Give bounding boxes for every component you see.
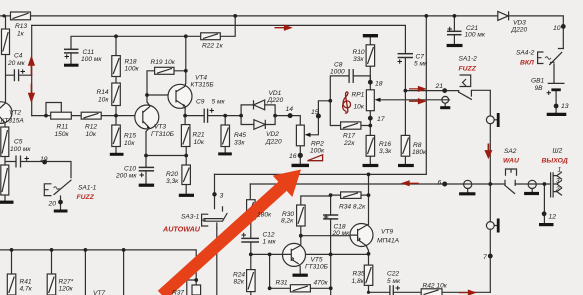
svg-text:C8: C8 [334,62,343,69]
svg-text:1,8к: 1,8к [352,278,365,285]
ground lower-left [0,201,14,204]
svg-text:7: 7 [483,254,487,261]
svg-text:C5: C5 [14,139,23,146]
svg-text:470к: 470к [314,280,329,287]
ground under VT5 [293,274,308,277]
svg-text:82к: 82к [234,279,245,286]
switch SA2 bracket [506,169,517,176]
svg-text:C4: C4 [14,53,23,60]
red arrow left on bus2 [403,181,419,185]
wire node21 row y=90.6 [405,90,458,92]
resistor R17 [341,122,361,129]
svg-text:C7: C7 [416,54,425,61]
red treble clef beside RP1 [343,92,351,113]
tilde SA1-1 [54,187,60,190]
svg-text:100к: 100к [125,66,140,73]
svg-text:R41: R41 [20,279,32,286]
potentiometer RP2 [296,125,304,146]
switch SA4-2 bracket [538,52,544,64]
svg-text:3,3к: 3,3к [166,178,179,185]
capacitor C18 [323,215,338,219]
wire C18 stems [330,195,332,254]
svg-text:SA1-1: SA1-1 [78,185,97,192]
svg-text:13: 13 [561,103,569,110]
wire VT2 emitter chain and C5 tee [5,123,71,200]
svg-text:RP1: RP1 [352,92,365,99]
svg-text:Д220: Д220 [511,27,528,34]
node 16 dot [298,153,303,158]
plus sign C12 [242,233,247,237]
svg-text:R8: R8 [413,142,422,149]
wire R17 row [330,101,370,126]
potentiometer RP1 [366,90,374,111]
wire C7/R8 column x=405.4 [404,58,406,164]
svg-text:21: 21 [435,83,444,90]
red arrow right on rail2 [275,25,291,30]
plus sign C22 [396,286,401,290]
svg-text:100 мк: 100 мк [81,56,102,63]
wire RP2 bottom to node16 and ground [299,146,301,164]
jack plug symbol lower (circle and bar) [486,219,498,233]
svg-text:R16: R16 [379,141,391,148]
svg-text:8,2к: 8,2к [281,218,294,225]
node 12 dot [542,211,547,216]
svg-text:20 мк: 20 мк [332,230,351,237]
capacitor C22 [390,285,393,295]
svg-text:R15: R15 [124,133,136,140]
wire top supply rail (node 10 net) [0,16,563,49]
wire VT5 base row y=254.4 [251,253,369,255]
resistor R20 [182,165,191,185]
wire R18-R14-R15 column x=116 [115,36,117,152]
transistor VT2 (clipped at left edge) [0,102,12,124]
svg-text:SA2: SA2 [504,148,517,155]
plus sign C5 [25,156,30,160]
svg-text:5 мк: 5 мк [414,61,428,68]
plus sign C21 [448,27,453,31]
resistor R35 [364,265,373,285]
jack socket A on bus2 [464,180,472,188]
tilde SA4-2 [545,57,551,60]
diode VD3 [498,11,509,20]
ground under node 12 [539,223,554,226]
svg-text:200 мк: 200 мк [115,173,137,180]
wire VT7 risers [85,250,123,295]
node 10 dot [561,24,566,29]
svg-text:3: 3 [220,193,224,200]
svg-text:18: 18 [375,81,383,88]
svg-text:R24: R24 [233,272,245,279]
resistor R34 [341,192,361,199]
wire bottom row y=292.3 with C22 and R42 [369,291,491,293]
svg-text:3: 3 [556,177,560,184]
resistor R10 [366,45,375,66]
svg-text:VT2: VT2 [9,110,21,117]
svg-text:VD1: VD1 [269,90,282,97]
svg-text:VT3: VT3 [154,124,166,131]
wire R19 row and VT3 collector column [147,71,186,102]
node 15 dot [316,114,321,119]
svg-text:19: 19 [40,156,48,163]
wire R45 ground stem [224,147,226,153]
capacitor C10 [139,167,154,170]
svg-text:1000: 1000 [330,69,345,76]
svg-text:VT7: VT7 [93,290,105,295]
ground under C10 [139,184,154,187]
svg-text:20: 20 [48,201,57,208]
svg-text:6: 6 [438,180,442,187]
svg-text:10к: 10к [98,97,109,104]
resistor R14 [112,83,121,106]
red arrow up on C4 column [29,58,34,77]
wire bus2 drop to 180k resistor and C12 [249,184,252,254]
resistor R30 [297,205,306,226]
wire main signal row y=115.6 left part [32,115,135,117]
ground under fuzz jack [440,106,450,109]
wire VT4 collector column x=185.8 [185,36,187,83]
svg-text:180к: 180к [412,149,427,156]
plus sign C10 [140,173,145,177]
svg-text:R21: R21 [193,132,205,139]
svg-text:5 мк: 5 мк [212,99,226,106]
svg-text:Д220: Д220 [265,139,282,146]
red arrow right on RP1 wiper wire [409,99,425,103]
switch SA1-2 contacts and blade [459,90,491,99]
wire R37 parallel branch [187,280,196,295]
node 17 dot [368,116,373,121]
svg-text:RP2: RP2 [311,141,324,148]
svg-text:R10: R10 [353,49,365,56]
ground under R15 [110,153,124,156]
svg-text:10к: 10к [194,139,205,146]
wire VT9 collector column x=368.5 [368,174,370,224]
wire R45 tap and R21 tap [185,116,225,125]
resistor R8 [401,135,410,156]
wire R41 and R27 stems [12,250,52,274]
svg-text:R35: R35 [353,271,365,278]
capacitor C21 [447,31,462,34]
svg-text:C9: C9 [196,99,205,106]
svg-text:КТ315А: КТ315А [1,118,25,125]
resistor R21 [181,125,190,147]
node 20 dot [58,200,63,205]
svg-text:R17: R17 [343,133,355,140]
ground under node 20 [54,210,68,213]
RP1 wiper arrowhead [375,98,381,102]
svg-text:16: 16 [289,153,297,160]
diode VD1 (points left) [254,100,265,110]
svg-text:22к: 22к [343,140,355,147]
wire R30 bottom to VT5 collector and VT9 base [301,226,350,245]
svg-text:20 мк: 20 мк [7,60,26,67]
svg-text:10: 10 [553,25,561,32]
svg-text:12: 12 [549,214,557,221]
wire VT5 emitter to ground [299,264,301,273]
svg-text:R18: R18 [125,59,137,66]
wire jack ground stems [445,103,532,192]
svg-text:VD2: VD2 [266,131,279,138]
ground under jack B [524,192,539,195]
resistor R37 [192,285,201,295]
wire diode loop frame [241,105,275,125]
red arrow down on C4 column [29,84,34,102]
svg-text:10к: 10к [124,140,135,147]
wire VT9 emitter node / R35 [368,251,370,293]
svg-text:10к: 10к [86,131,97,138]
resistor below VT2 (unlabeled, edge) [1,127,9,157]
resistor R42 [421,289,442,295]
resistor R45 [221,125,230,147]
resistor R24 [247,270,256,292]
switch SA1-2 bracket [460,75,471,87]
svg-text:R11: R11 [57,124,69,131]
ground under node 16 [292,164,310,167]
svg-text:VT9: VT9 [381,229,393,236]
diode VD2 (points right) [254,120,265,130]
plus sign C4 [21,69,26,73]
wire C9 to diode loop to RP2 [208,116,301,126]
ground under jack A [459,192,475,195]
svg-text:R37: R37 [172,290,184,295]
svg-text:4,7к: 4,7к [20,286,33,293]
wire C21 stems [453,16,455,44]
svg-text:1к: 1к [17,31,25,38]
svg-text:14: 14 [286,106,294,113]
svg-text:C11: C11 [83,49,95,56]
capacitor C4 [14,69,18,81]
node 21 dot [442,88,447,93]
wire R10/RP1/R16 column x=370.3 [369,37,371,164]
svg-text:R12: R12 [85,124,97,131]
resistor R31 [290,285,310,292]
ground under R8 [398,164,414,167]
svg-text:AUTOWAU: AUTOWAU [162,225,201,234]
svg-text:FUZZ: FUZZ [77,194,95,201]
big red arrow pointing at RP2/node16 [158,170,301,295]
svg-text:Д220: Д220 [267,97,284,104]
switch SA1-1 bracket [44,184,51,196]
switch SA4-2 blade and leads [550,49,564,84]
red arrow right on node21 wire [409,87,425,91]
plus sign C9 [210,108,215,112]
capacitor C12 [241,238,259,242]
svg-text:33к: 33к [353,56,364,63]
transistor VT9 [350,224,373,251]
resistor R19 [155,67,174,74]
svg-text:C10: C10 [124,166,136,173]
plus sign C11 [65,54,70,58]
resistor R12 [81,112,101,119]
svg-text:FUZZ: FUZZ [459,66,477,73]
switch SA2 contacts and blade [505,180,515,193]
svg-text:5 мк: 5 мк [387,278,401,285]
node 6 dot [442,182,447,187]
node 13 dot [554,104,559,109]
svg-text:100 мк: 100 мк [10,146,31,153]
svg-text:120к: 120к [59,286,74,293]
svg-text:C22: C22 [387,271,399,278]
wire R11 tap [46,103,61,116]
svg-text:15: 15 [311,109,319,116]
wire R24 stem [250,254,252,295]
wire C10/R20 row y=155.5 [146,132,186,194]
wire R30 top bend and R34 row [301,195,369,205]
wire bus2 y=184 left segment [250,183,505,185]
svg-text:ВКЛ: ВКЛ [520,60,534,67]
svg-text:МП41А: МП41А [377,238,400,245]
resistor R41 [7,274,16,295]
node 19 dot [42,160,47,165]
svg-text:Ш2: Ш2 [553,148,563,155]
resistor R27* [47,274,56,295]
supply bar above R10 [363,34,378,37]
plus sign C7 [398,59,403,63]
resistor R22 [201,33,221,40]
capacitor C5 [16,156,21,168]
svg-text:R14: R14 [97,89,109,96]
node 3 dot [212,192,216,196]
capacitor C7 [398,54,413,58]
wire SA3-1 output column to bottom edge [216,228,218,295]
wire rail2 from C4 column to C7 [32,25,406,53]
connector Sh2 body [551,172,562,198]
transistor VT5 [283,243,306,266]
resistor R13 [11,12,31,20]
red taper wedge beside RP2 [308,155,323,161]
ground under R45 [218,152,232,155]
capacitor C11 [64,49,79,53]
jack socket B on bus2 [528,180,536,188]
capacitor C8 [349,69,353,83]
svg-text:R22 1к: R22 1к [202,43,224,50]
svg-text:180к: 180к [257,212,272,219]
wire left column x=5.5 (VT2 collector) [6,16,32,102]
wire C11/R18/R22 net y=36.3 [71,16,235,64]
switch SA3-1 blade [204,214,227,229]
wire RP2 wiper to node 15 up to C8/R17 junction [308,101,330,135]
svg-text:SA1-2: SA1-2 [459,56,478,63]
plus sign C18 [324,215,329,219]
svg-text:1 мк: 1 мк [263,239,277,246]
wire bus1 supply y=174.4 [215,16,427,175]
switch SA3-1 bracket [202,214,209,226]
ground under C21 [447,44,463,47]
battery GB1 [548,83,565,89]
resistor 180k (name hidden by arrow) [247,200,256,220]
svg-text:VT5: VT5 [311,257,323,264]
svg-text:R13: R13 [15,23,27,30]
svg-text:100к: 100к [310,148,325,155]
svg-text:ГТ310Б: ГТ310Б [151,131,175,138]
transistor VT3 [135,102,159,132]
wire bus2 right segment to connector [515,183,550,185]
wire C4 column vertical [31,25,33,115]
svg-text:3,3к: 3,3к [379,148,392,155]
svg-text:R27*: R27* [59,279,74,286]
resistor R11 (variable, with tap) [51,112,72,119]
svg-text:10к: 10к [354,104,365,111]
wire VT4 emitter to C9 [185,109,204,116]
svg-text:ГТ310Б: ГТ310Б [305,264,329,271]
svg-text:R19 10к: R19 10к [151,59,176,66]
svg-text:SA3-1: SA3-1 [181,214,200,221]
wire bus3 y=249.9 bottom-left supply [0,250,196,285]
svg-text:ВЫХОД: ВЫХОД [542,158,568,165]
svg-text:2: 2 [555,186,560,193]
svg-text:WAU: WAU [503,158,520,165]
wire battery GB1 to node 13 and ground [555,91,557,113]
svg-text:33к: 33к [234,140,245,147]
svg-text:R20: R20 [166,171,178,178]
resistor (left edge, unlabeled) [2,29,10,55]
wire fuzz-jack column x=490.3 down to bus2 and node 7 [489,91,491,293]
svg-text:R34 8,2к: R34 8,2к [339,204,366,211]
svg-text:150к: 150к [55,131,70,138]
wire C8 row y=75.9 [330,76,370,101]
svg-text:КТ315Б: КТ315Б [191,82,215,89]
ground under R20 [179,194,194,197]
svg-text:R45: R45 [234,132,246,139]
transistor VT4 [168,83,192,108]
node 14 dot [288,113,293,118]
resistor R18 [112,56,121,77]
svg-text:R31: R31 [276,280,288,287]
resistor lower-left (unlabeled, edge) [1,165,9,195]
RP2 wiper arrowhead [305,133,311,137]
wire node12 drop [543,184,545,223]
red arrow down on fuzz-jack column [486,144,491,158]
wire RP1 wiper row y=99.8 to fuzz jack [377,99,450,101]
wire node 3 riser [215,174,223,211]
svg-text:GB1: GB1 [531,78,545,85]
svg-text:C12: C12 [263,232,275,239]
wire R31 row y=288.3 [270,254,331,295]
svg-text:VT4: VT4 [195,75,207,82]
node 18 dot [368,80,373,85]
resistor R15 [112,125,121,147]
svg-text:9В: 9В [535,85,544,92]
svg-text:R42 10к: R42 10к [423,283,448,290]
junction dots (plain) [2,14,5,17]
plus sign GB1 [547,91,552,95]
ground under R16 [363,164,379,167]
switch SA1-1 blade and contacts [54,180,71,209]
ground under C11 [64,64,79,67]
fuzz jack socket (circle grounded) [442,96,449,103]
svg-text:1: 1 [558,166,562,173]
jack plug symbol upper (circle and bar) [486,113,498,127]
resistor R16 [366,135,375,156]
svg-text:SA4-2: SA4-2 [516,50,535,57]
red arrow right on bottom wire [459,290,475,294]
ground under node 13 [547,113,567,116]
svg-text:17: 17 [377,116,385,123]
svg-text:VD3: VD3 [513,20,526,27]
node 7 dot [488,254,493,259]
svg-text:100 мк: 100 мк [465,32,486,39]
capacitor C9 [204,109,207,123]
